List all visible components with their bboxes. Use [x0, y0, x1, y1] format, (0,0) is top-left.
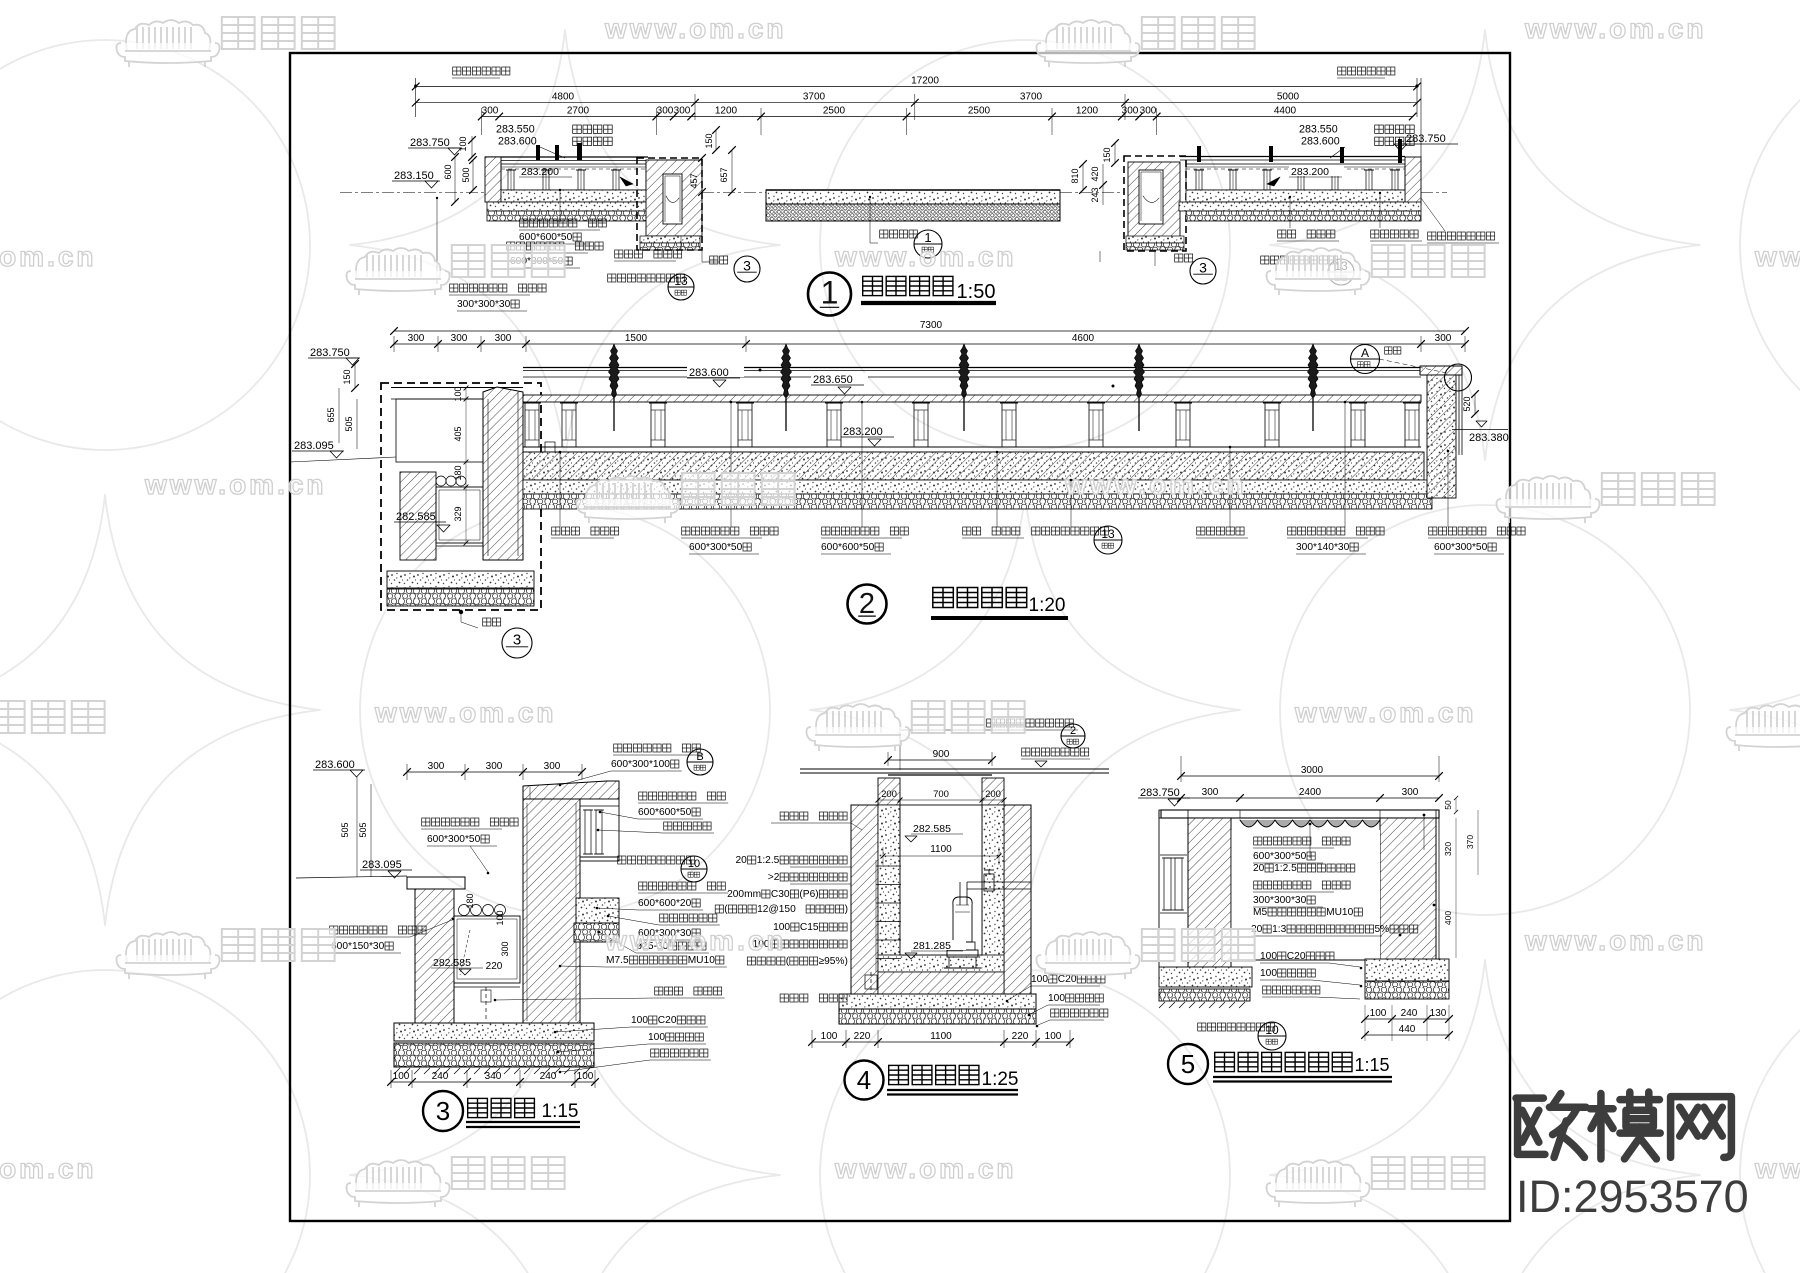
- svg-text:100: 100: [495, 910, 505, 925]
- svg-text:283.750: 283.750: [310, 347, 350, 359]
- section2 base pebble band: [523, 494, 1432, 509]
- svg-text:283.550: 283.550: [1299, 124, 1338, 136]
- section2 detail ref A circle: [1351, 345, 1380, 374]
- svg-text:100: 100: [1260, 968, 1277, 979]
- svg-text:600*600*20: 600*600*20: [638, 898, 692, 909]
- svg-text:2500: 2500: [823, 106, 846, 117]
- svg-text:www.om.cn: www.om.cn: [1524, 925, 1707, 956]
- svg-text:50: 50: [1443, 800, 1453, 810]
- detail4 dim 900: [888, 759, 992, 761]
- section1 right labels below: [1289, 197, 1291, 228]
- section2 title circle 2: [848, 585, 887, 624]
- section2 dim line 7300: [394, 330, 1465, 332]
- section2 pool floor lines: [523, 446, 1421, 448]
- section2 left upper pool interior: [396, 399, 483, 462]
- svg-text:3000: 3000: [1301, 765, 1324, 776]
- section1 left overflow channel cavity: [663, 174, 682, 224]
- detail4 title text: [889, 1065, 909, 1084]
- section1 right overflow gravel pad: [1126, 236, 1184, 243]
- section1 left pool floor slab speckle: [501, 190, 646, 202]
- svg-text:3700: 3700: [1020, 92, 1043, 103]
- svg-text:283.650: 283.650: [813, 374, 853, 386]
- detail4 pit bottom hatch: [878, 972, 1004, 994]
- section1 left 283.200 label: [519, 166, 574, 176]
- svg-text:1100: 1100: [930, 1031, 952, 1042]
- section2 top rail lines: [523, 367, 1421, 369]
- svg-text:1200: 1200: [1076, 106, 1099, 117]
- section1 dim line 300 2700 300 300 1200 2500 2500 1200 300 300 4400: [482, 116, 1413, 118]
- svg-text:100: 100: [821, 1031, 838, 1042]
- section1 left pool support posts: [508, 170, 514, 190]
- detail5 top cap band: [1161, 810, 1439, 818]
- section2 bottom leader lines: [559, 452, 561, 527]
- svg-text:20: 20: [736, 855, 748, 866]
- section2 left detail dashed box: [381, 383, 541, 610]
- svg-text:457: 457: [689, 173, 699, 188]
- section1 right detail dashed box: [1124, 156, 1186, 251]
- svg-text:340: 340: [485, 1071, 502, 1082]
- svg-text:3: 3: [743, 257, 751, 273]
- svg-text:B: B: [696, 751, 703, 763]
- svg-text:300: 300: [428, 761, 445, 772]
- section1 ground dash-dot line: [340, 192, 485, 194]
- svg-text:C20: C20: [1058, 974, 1077, 985]
- svg-text:283.200: 283.200: [521, 166, 559, 178]
- svg-text:3700: 3700: [803, 92, 826, 103]
- svg-text:www.om.cn: www.om.cn: [1754, 241, 1800, 272]
- section1 right pool wall hatch: [1405, 157, 1421, 205]
- detail3 right wall inner liner: [526, 803, 528, 1021]
- svg-text:440: 440: [1399, 1024, 1416, 1035]
- detail3 title circle 3: [423, 1091, 463, 1131]
- svg-text:13: 13: [674, 274, 688, 288]
- svg-text:1:2.5: 1:2.5: [757, 855, 780, 866]
- detail3 top right cap stone: [523, 781, 619, 799]
- svg-text:329: 329: [453, 506, 463, 521]
- svg-text:www.om.cn: www.om.cn: [604, 925, 787, 956]
- section1 right overflow channel hatch: [1128, 162, 1180, 238]
- svg-text:10: 10: [688, 858, 700, 870]
- section2 left cap band: [391, 387, 523, 389]
- svg-text:ID:2953570: ID:2953570: [1516, 1171, 1749, 1222]
- section1 left leader labels stone: [559, 190, 561, 222]
- svg-text:283.095: 283.095: [294, 440, 334, 452]
- svg-text:300*300*30: 300*300*30: [457, 299, 511, 310]
- svg-text:2: 2: [1070, 725, 1076, 737]
- detail3 title text: [468, 1098, 488, 1117]
- section2 water level 283.600: [687, 366, 744, 377]
- svg-text:www.om.cn: www.om.cn: [834, 1153, 1017, 1184]
- svg-text:www.om.cn: www.om.cn: [834, 241, 1017, 272]
- svg-text:200mm: 200mm: [727, 889, 761, 900]
- svg-text:2700: 2700: [567, 106, 590, 117]
- svg-text:600*600*50: 600*600*50: [519, 232, 573, 243]
- detail4 title circle 4: [845, 1061, 884, 1100]
- detail4 outer wall hatch left: [851, 805, 878, 994]
- svg-text:(: (: [724, 904, 728, 915]
- section1 right pool floor speckle: [1186, 190, 1405, 202]
- svg-text:405: 405: [453, 426, 463, 441]
- section1 middle pavement strip: [766, 190, 1060, 204]
- detail5 footing right pebble: [1365, 981, 1449, 999]
- detail3 pool pebble row: [459, 905, 470, 916]
- section2 footing under box pebble: [387, 589, 534, 606]
- svg-text:300: 300: [495, 333, 512, 344]
- section2 footing under box speck: [387, 571, 534, 588]
- svg-text:1:2.5: 1:2.5: [1274, 863, 1297, 874]
- detail5 pool detail ref 10: [1198, 1023, 1206, 1031]
- detail3 pool inner slope line: [460, 930, 470, 975]
- svg-text:300: 300: [1122, 106, 1139, 117]
- section1 right pool support posts: [1196, 170, 1202, 190]
- svg-text:240: 240: [1401, 1008, 1418, 1019]
- section1 right wall edge vertical: [1420, 78, 1422, 157]
- svg-text:100: 100: [393, 1071, 410, 1082]
- svg-text:600*150*30: 600*150*30: [331, 941, 385, 952]
- detail4 base speck band: [839, 994, 1036, 1009]
- svg-text:243: 243: [1090, 187, 1100, 202]
- section1 left detail dashed box: [637, 158, 702, 250]
- section2 cypress trees: [609, 344, 620, 397]
- svg-text:1500: 1500: [625, 333, 648, 344]
- svg-text:283.750: 283.750: [1406, 133, 1446, 145]
- section2 right wall liner lines: [1458, 375, 1460, 455]
- svg-text:505: 505: [358, 822, 368, 837]
- section2 drain pipe: [545, 442, 555, 452]
- svg-text:283.600: 283.600: [498, 136, 537, 148]
- section2 water level 283.650: [811, 373, 868, 384]
- svg-text:20: 20: [1253, 863, 1265, 874]
- svg-text:200: 200: [985, 789, 1001, 800]
- svg-text:100: 100: [458, 136, 468, 151]
- svg-text:283.600: 283.600: [1301, 136, 1340, 148]
- svg-text:>2: >2: [768, 872, 780, 883]
- svg-text:282.585: 282.585: [913, 823, 951, 835]
- detail5 footing left pebble: [1159, 989, 1250, 1001]
- svg-text:283.095: 283.095: [362, 859, 402, 871]
- svg-text:300: 300: [544, 761, 561, 772]
- svg-text:www.om.cn: www.om.cn: [1524, 13, 1707, 44]
- detail4 base pebble band: [839, 1009, 1036, 1024]
- svg-text:300: 300: [1202, 787, 1219, 798]
- svg-text:12@150: 12@150: [757, 904, 796, 915]
- svg-text:4600: 4600: [1072, 333, 1095, 344]
- section2 support posts row: [525, 403, 539, 447]
- detail3 subgrade hatch marks: [394, 1068, 400, 1074]
- svg-text:505: 505: [340, 822, 350, 837]
- detail3 right wall hatch: [523, 799, 580, 1025]
- svg-text:3: 3: [513, 632, 521, 649]
- detail3 bottom dims 100 240 340 240 100: [391, 1081, 595, 1083]
- section2 corner detail circle: [1445, 364, 1472, 391]
- section2 base light speck band: [523, 480, 1430, 494]
- detail3 drain dashed pipe: [485, 987, 487, 1022]
- detail5 title text: [1215, 1052, 1235, 1071]
- detail5 footing left subgrade ticks: [1159, 1002, 1165, 1008]
- detail5 left wall hatch: [1188, 818, 1231, 967]
- svg-text:1:25: 1:25: [982, 1069, 1019, 1090]
- svg-text:3: 3: [436, 1096, 450, 1126]
- section2 bottom labels row: [552, 527, 560, 535]
- section1 right overflow channel cavity: [1139, 170, 1163, 224]
- section2 title text: [933, 588, 954, 608]
- detail3 pool cavity with liner: [454, 916, 520, 983]
- svg-text:220: 220: [854, 1031, 871, 1042]
- svg-text:): ): [845, 904, 848, 915]
- section2 detail ref 3 below box: [460, 610, 462, 622]
- svg-text:283.200: 283.200: [843, 426, 883, 438]
- section1 right pool top slab: [1180, 156, 1405, 158]
- svg-text:1:50: 1:50: [957, 281, 996, 303]
- detail3 right stone slab speck band: [576, 898, 619, 923]
- svg-text:3: 3: [1199, 259, 1207, 275]
- svg-text:150: 150: [342, 369, 352, 384]
- svg-text:300: 300: [500, 941, 510, 956]
- svg-text:www.om.cn: www.om.cn: [1064, 469, 1247, 500]
- detail3 right label column: [614, 744, 622, 752]
- svg-text:www.om.cn: www.om.cn: [374, 697, 557, 728]
- svg-text:283.750: 283.750: [1140, 787, 1180, 799]
- svg-text:283.380: 283.380: [1469, 432, 1509, 444]
- section1 wall reference line labels: [453, 67, 461, 75]
- svg-text:300: 300: [1435, 333, 1452, 344]
- svg-text:1200: 1200: [715, 106, 738, 117]
- svg-text:400: 400: [1443, 911, 1453, 925]
- svg-text:100: 100: [1048, 993, 1065, 1004]
- svg-text:5000: 5000: [1277, 92, 1300, 103]
- svg-text:13: 13: [1101, 527, 1115, 541]
- section1 pavement leader and label: [869, 197, 871, 243]
- detail4 ground level label: [1022, 748, 1030, 756]
- svg-text:900: 900: [933, 749, 950, 760]
- detail4 top label well cover: [987, 719, 995, 727]
- svg-text:17200: 17200: [911, 76, 939, 87]
- detail4 outer wall hatch right: [1004, 805, 1031, 994]
- svg-text:283.600: 283.600: [315, 759, 355, 771]
- svg-text:www.om.cn: www.om.cn: [1754, 1153, 1800, 1184]
- svg-text:≥95%): ≥95%): [819, 956, 848, 967]
- svg-text:700: 700: [933, 789, 949, 800]
- detail4 ladder rungs: [876, 865, 901, 867]
- svg-text:600: 600: [443, 164, 453, 179]
- svg-text:180: 180: [465, 893, 475, 908]
- svg-text:1: 1: [821, 275, 839, 311]
- svg-text:281.285: 281.285: [913, 940, 951, 952]
- svg-text:130: 130: [1430, 1008, 1447, 1019]
- section1 left overflow gravel pad: [640, 236, 700, 243]
- detail3 base pebble band: [394, 1043, 594, 1067]
- svg-text:1:15: 1:15: [542, 1101, 579, 1122]
- svg-text:100: 100: [1260, 951, 1277, 962]
- detail4 pit interior: [900, 805, 982, 955]
- detail4 drain pipe lower left: [870, 972, 872, 1018]
- svg-text:100: 100: [648, 1032, 665, 1043]
- svg-text:10: 10: [1265, 1023, 1279, 1037]
- svg-text:180: 180: [453, 465, 463, 480]
- site logo big OuModWang glyphs: [1516, 1094, 1586, 1158]
- svg-text:655: 655: [326, 407, 336, 422]
- svg-text:C15: C15: [800, 922, 819, 933]
- svg-text:300*300*30: 300*300*30: [1253, 895, 1307, 906]
- detail4 elevation 281.285: [911, 940, 966, 950]
- svg-text:282.585: 282.585: [396, 511, 436, 523]
- detail5 left support posts: [1164, 858, 1171, 910]
- svg-text:(: (: [786, 956, 790, 967]
- drawing frame border: [290, 53, 1510, 1221]
- svg-text:600*300*100: 600*300*100: [611, 759, 670, 770]
- svg-text:300: 300: [486, 761, 503, 772]
- svg-text:282.585: 282.585: [433, 957, 471, 969]
- svg-text:1:20: 1:20: [1029, 595, 1066, 616]
- detail3 left wall hatch: [415, 889, 454, 1025]
- section1 left pool interior: [501, 164, 646, 190]
- svg-text:300: 300: [482, 106, 499, 117]
- section2 stone slab band on supports: [523, 395, 1421, 402]
- section1 left pool detail ref 13: [608, 274, 616, 282]
- svg-text:300: 300: [1402, 787, 1419, 798]
- section1 left overflow channel hatch: [646, 160, 702, 236]
- svg-text:283.600: 283.600: [689, 367, 729, 379]
- section1 left pool wall hatch: [485, 157, 501, 202]
- detail5 center labels: [1254, 837, 1262, 845]
- detail5 planting interior: [1231, 830, 1380, 960]
- detail4 collar hatch blocks: [878, 778, 900, 805]
- svg-text:M7.5: M7.5: [606, 955, 629, 966]
- svg-text:1100: 1100: [930, 844, 952, 855]
- detail4 bottom dims 100 220 1100 220 100: [812, 1041, 1070, 1043]
- detail3 upper niche with supports: [580, 799, 619, 861]
- svg-text:www.om.cn: www.om.cn: [0, 1153, 97, 1184]
- svg-text:600*600*50: 600*600*50: [638, 807, 692, 818]
- section2 pebble row on step: [436, 476, 446, 486]
- svg-text:240: 240: [432, 1071, 449, 1082]
- svg-text:A: A: [1361, 346, 1369, 360]
- svg-text:100: 100: [577, 1071, 594, 1082]
- section2 left wall hatch with slant cap: [483, 387, 523, 560]
- svg-text:300: 300: [657, 106, 674, 117]
- svg-text:4400: 4400: [1274, 106, 1297, 117]
- section1 left base pebble band: [487, 211, 648, 221]
- section2 dim line 300 300 300 1500 4600 300: [394, 343, 1465, 345]
- svg-text:300*140*30: 300*140*30: [1296, 542, 1350, 553]
- svg-text:2500: 2500: [968, 106, 991, 117]
- detail3 left labels: [330, 926, 338, 934]
- svg-text:657: 657: [719, 167, 729, 182]
- svg-text:220: 220: [486, 961, 503, 972]
- svg-text:www.om.cn: www.om.cn: [0, 241, 97, 272]
- svg-text:100: 100: [631, 1015, 648, 1026]
- svg-text:520: 520: [1462, 396, 1472, 411]
- svg-text:283.750: 283.750: [410, 137, 450, 149]
- detail3 left ledge cap: [407, 877, 465, 889]
- section1 left pool top slab: [485, 156, 648, 158]
- svg-text:810: 810: [1070, 168, 1080, 183]
- detail5 dim 3000: [1181, 775, 1439, 777]
- section2 lower left wall hatch: [400, 472, 436, 560]
- svg-text:200: 200: [881, 789, 897, 800]
- svg-text:320: 320: [1443, 842, 1453, 856]
- svg-text:M5: M5: [1253, 907, 1267, 918]
- detail5 footing left speck: [1159, 967, 1252, 987]
- svg-text:1:15: 1:15: [1354, 1055, 1389, 1075]
- svg-text:MU10: MU10: [688, 955, 716, 966]
- svg-text:283.550: 283.550: [496, 124, 535, 136]
- section1 left base concrete band: [487, 202, 648, 211]
- section1 right pool interior: [1186, 164, 1405, 190]
- svg-text:100: 100: [1045, 1031, 1062, 1042]
- section1 left detail ref 3: [701, 249, 703, 262]
- section1 left fountain nozzles: [536, 145, 540, 160]
- section1 right base concrete band: [1179, 202, 1421, 211]
- detail5 dims 300 2400 300: [1181, 797, 1439, 799]
- svg-text:283.150: 283.150: [394, 170, 434, 182]
- svg-text:C30: C30: [771, 889, 790, 900]
- svg-text:4: 4: [857, 1065, 871, 1095]
- svg-text:www.om.cn: www.om.cn: [604, 13, 787, 44]
- svg-text:7300: 7300: [920, 320, 943, 331]
- svg-text:MU10: MU10: [1326, 907, 1354, 918]
- svg-text:5: 5: [1181, 1049, 1195, 1079]
- section1 left drain label: [680, 236, 682, 250]
- svg-text:150: 150: [704, 133, 714, 148]
- detail5 soil scallops: [1240, 820, 1380, 827]
- detail5 bottom dims 100 240 130 440: [1365, 1018, 1449, 1020]
- svg-text:www.om.cn: www.om.cn: [1294, 697, 1477, 728]
- svg-text:600*600*50: 600*600*50: [821, 542, 875, 553]
- detail4 inner lining speckle: [878, 805, 900, 972]
- section2 right end wall cap: [1420, 366, 1462, 375]
- detail5 footing right speck: [1365, 959, 1449, 981]
- section1 right base pebble band: [1186, 211, 1421, 221]
- detail5 title circle 5: [1168, 1044, 1208, 1084]
- svg-text:505: 505: [344, 416, 354, 431]
- svg-text:150: 150: [1102, 147, 1112, 162]
- section1 right pool detail ref 13: [1099, 251, 1101, 262]
- svg-text:600*300*50: 600*300*50: [1253, 851, 1307, 862]
- svg-text:100: 100: [453, 386, 463, 401]
- svg-text:www.om.cn: www.om.cn: [144, 469, 327, 500]
- detail3 top dims 300 300 300: [407, 771, 582, 773]
- detail4 ground double line: [800, 768, 1109, 770]
- section1 title text: [863, 276, 883, 295]
- svg-text:283.200: 283.200: [1291, 166, 1329, 178]
- svg-text:4800: 4800: [552, 92, 575, 103]
- svg-text:500: 500: [461, 167, 471, 182]
- detail3 ground line: [296, 876, 407, 878]
- svg-text:C20: C20: [1287, 951, 1306, 962]
- section1 right fountain nozzles: [1197, 146, 1201, 162]
- detail4 pump body: [953, 897, 972, 942]
- section1 dim line 4800 3700 3700 5000: [416, 102, 1417, 104]
- svg-text:300: 300: [1140, 106, 1157, 117]
- detail5 right wall hatch: [1380, 818, 1436, 960]
- detail4 pump discharge pipe: [967, 888, 1031, 890]
- svg-text:100: 100: [1031, 974, 1048, 985]
- svg-text:2400: 2400: [1299, 787, 1322, 798]
- svg-text:370: 370: [1465, 835, 1475, 849]
- detail5 leader dots: [1423, 814, 1426, 817]
- svg-text:600*300*50: 600*300*50: [427, 834, 481, 845]
- svg-text:420: 420: [1090, 166, 1100, 181]
- section1 dim line 17200: [416, 86, 1417, 88]
- svg-text:C20: C20: [658, 1015, 677, 1026]
- svg-text:240: 240: [540, 1071, 557, 1082]
- svg-text:2: 2: [859, 588, 875, 620]
- section1 title circle 1: [808, 273, 851, 316]
- svg-text:300: 300: [451, 333, 468, 344]
- svg-text:220: 220: [1012, 1031, 1029, 1042]
- svg-text:(P6): (P6): [799, 889, 818, 900]
